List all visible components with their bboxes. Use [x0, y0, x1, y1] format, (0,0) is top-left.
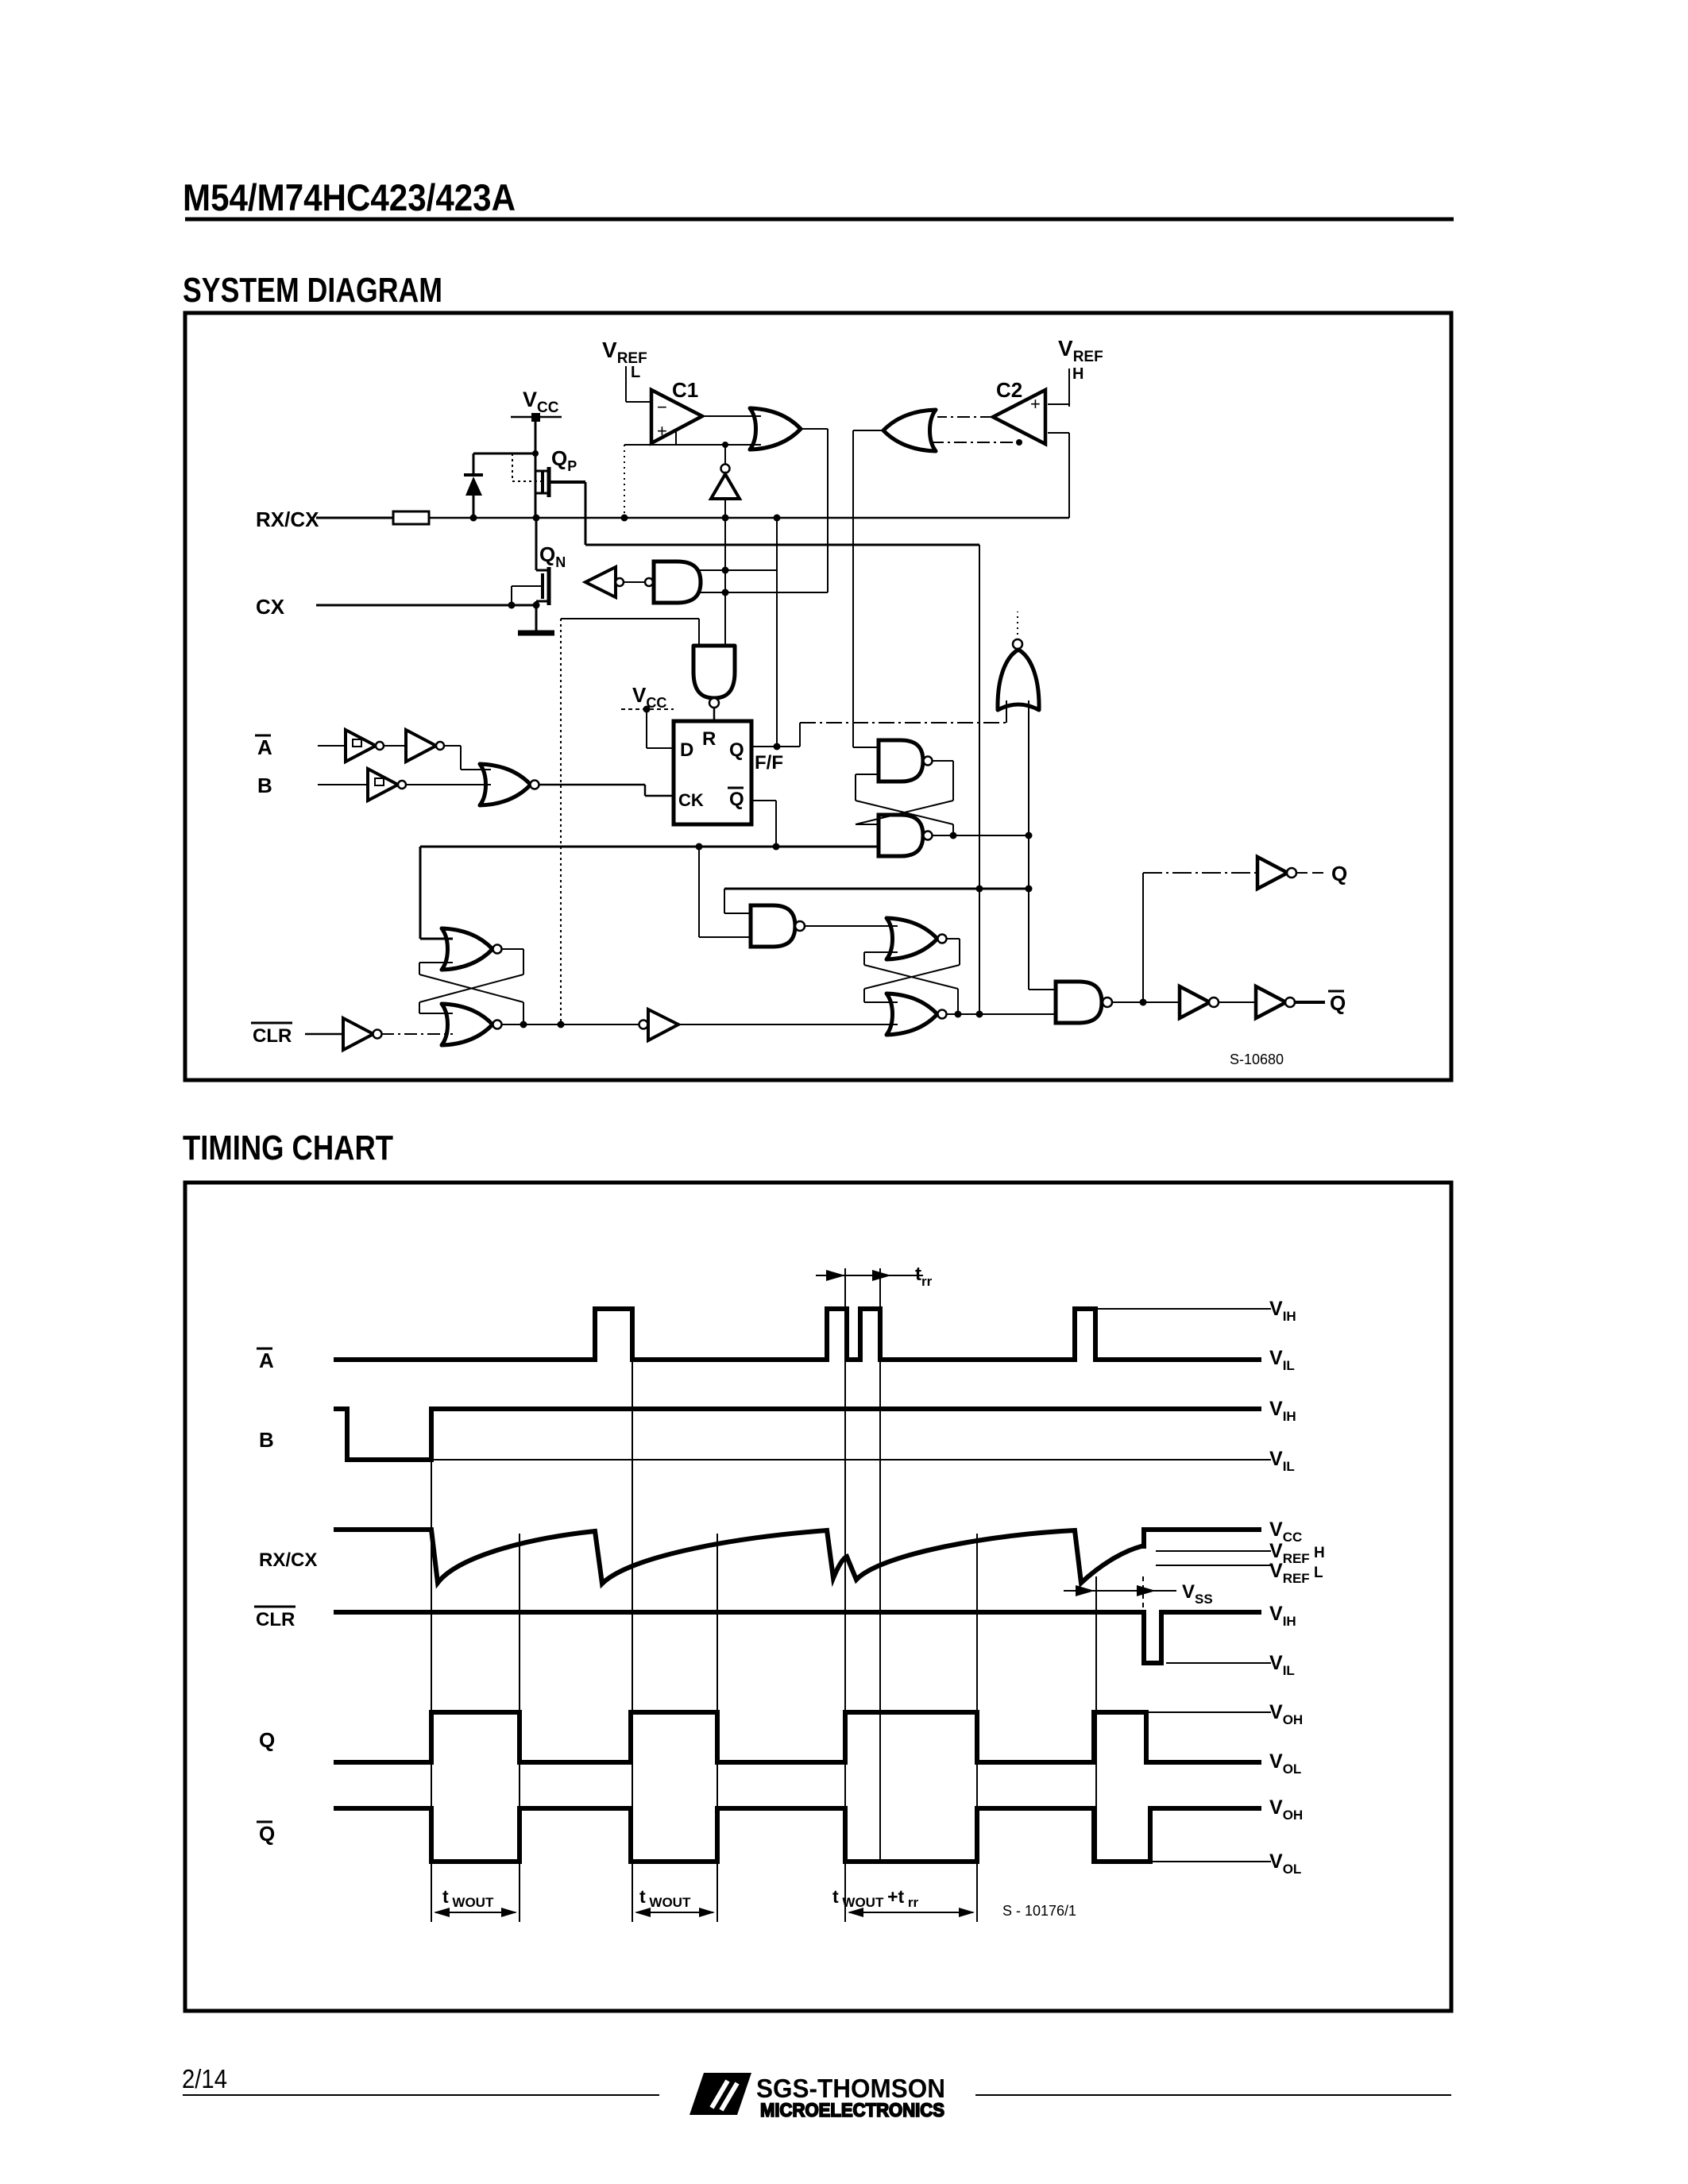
svg-text:+: +: [657, 421, 667, 441]
svg-text:VCC: VCC: [632, 683, 666, 711]
svg-text:Q: Q: [259, 1728, 275, 1752]
svg-text:CK: CK: [678, 790, 704, 810]
svg-text:t WOUT: t WOUT: [442, 1886, 494, 1910]
svg-text:VIH: VIH: [1269, 1398, 1296, 1424]
svg-text:VCC: VCC: [523, 388, 559, 416]
svg-text:VREF: VREF: [602, 338, 647, 367]
svg-text:VIH: VIH: [1269, 1603, 1296, 1629]
svg-text:C1: C1: [672, 378, 698, 402]
svg-text:D: D: [680, 739, 693, 761]
svg-text:SGS-THOMSON: SGS-THOMSON: [756, 2074, 945, 2103]
svg-text:SYSTEM DIAGRAM: SYSTEM DIAGRAM: [183, 271, 442, 310]
svg-text:B: B: [259, 1428, 274, 1452]
svg-text:B: B: [257, 774, 272, 797]
svg-text:CLR: CLR: [253, 1025, 292, 1047]
svg-text:F/F: F/F: [755, 752, 783, 774]
svg-text:t WOUT: t WOUT: [639, 1886, 691, 1910]
svg-text:2/14: 2/14: [182, 2064, 227, 2093]
svg-text:A: A: [257, 735, 272, 759]
svg-text:QN: QN: [539, 542, 566, 570]
svg-text:VIL: VIL: [1269, 1347, 1295, 1373]
svg-text:Q: Q: [729, 789, 744, 810]
svg-text:Q: Q: [1330, 991, 1346, 1015]
svg-text:R: R: [702, 728, 716, 750]
svg-text:CLR: CLR: [256, 1609, 295, 1630]
svg-text:L: L: [631, 364, 640, 381]
svg-text:VOL: VOL: [1269, 1750, 1301, 1777]
svg-text:VOL: VOL: [1269, 1850, 1301, 1877]
svg-text:Q: Q: [1331, 862, 1347, 886]
svg-text:RX/CX: RX/CX: [256, 507, 319, 531]
svg-text:MICROELECTRONICS: MICROELECTRONICS: [760, 2100, 944, 2121]
svg-text:VOH: VOH: [1269, 1701, 1303, 1727]
svg-text:+: +: [1030, 394, 1041, 414]
svg-text:CX: CX: [256, 595, 285, 619]
svg-text:C2: C2: [996, 378, 1022, 402]
svg-text:VIL: VIL: [1269, 1448, 1295, 1474]
svg-text:VREF: VREF: [1058, 336, 1103, 365]
svg-text:−: −: [657, 397, 667, 417]
svg-text:trr: trr: [915, 1264, 933, 1289]
svg-text:QP: QP: [551, 446, 577, 474]
svg-text:M54/M74HC423/423A: M54/M74HC423/423A: [183, 176, 516, 218]
svg-text:Q: Q: [729, 739, 744, 761]
svg-text:VIL: VIL: [1269, 1652, 1295, 1678]
svg-text:RX/CX: RX/CX: [259, 1549, 317, 1571]
svg-text:H: H: [1072, 365, 1083, 383]
svg-text:VSS: VSS: [1182, 1581, 1213, 1607]
svg-text:S-10680: S-10680: [1230, 1051, 1284, 1067]
svg-text:VOH: VOH: [1269, 1796, 1303, 1823]
svg-text:TIMING CHART: TIMING CHART: [183, 1129, 393, 1167]
svg-text:Q: Q: [259, 1822, 275, 1846]
svg-text:S - 10176/1: S - 10176/1: [1002, 1903, 1076, 1919]
svg-text:A: A: [259, 1349, 274, 1372]
svg-text:VIH: VIH: [1269, 1298, 1296, 1324]
